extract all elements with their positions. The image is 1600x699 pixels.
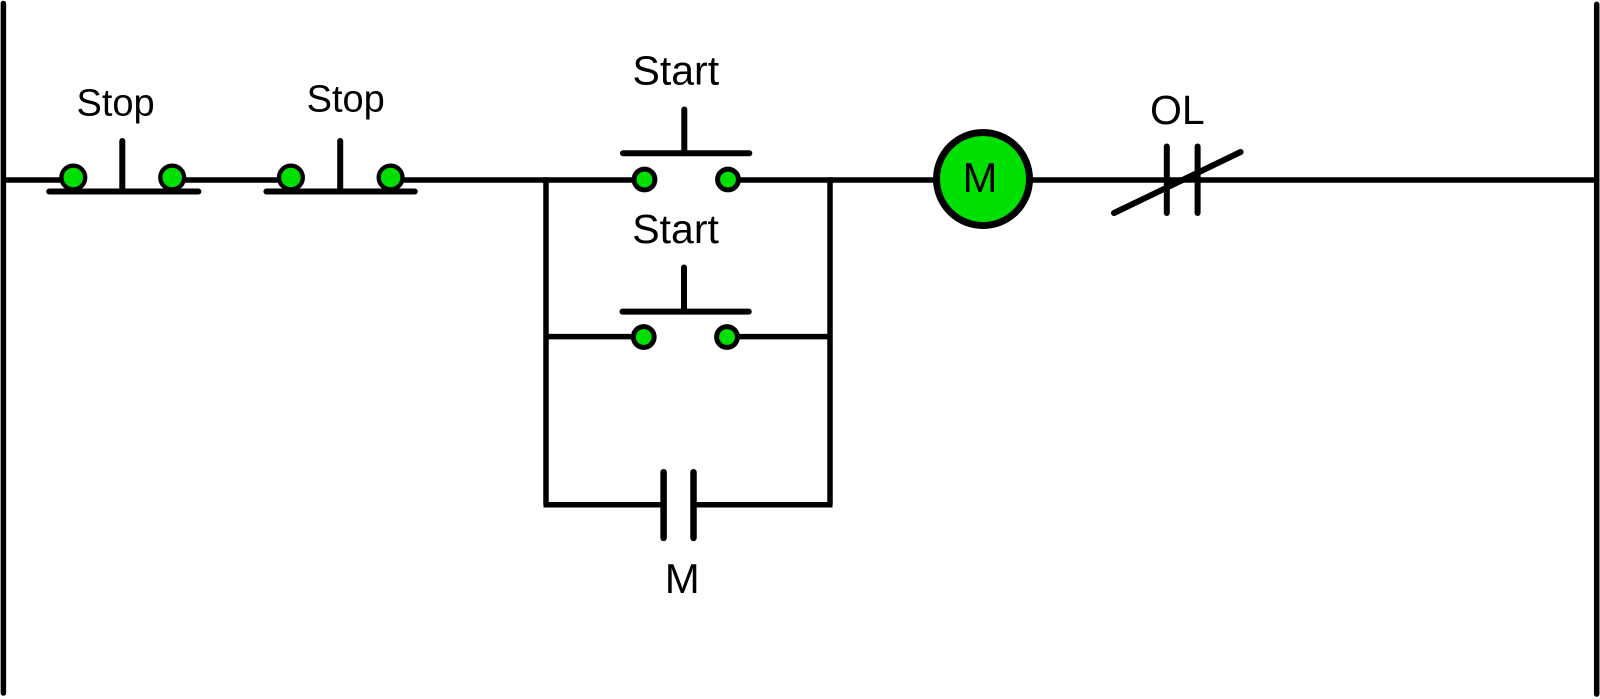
wire: Start2 branch left segment bbox=[544, 334, 645, 340]
pushbutton Stop1 contact bar bbox=[49, 189, 198, 195]
wire: Stop1 right terminal to Stop2 left terminal bbox=[172, 177, 291, 183]
pushbutton Start1 right terminal bbox=[718, 169, 739, 190]
wire: Start1 right terminal to right rail (through right branch node, motor M and OL) bbox=[728, 177, 1597, 183]
overload contact OL left plate bbox=[1164, 147, 1170, 214]
svg-text:Start: Start bbox=[632, 206, 719, 252]
svg-text:OL: OL bbox=[1150, 87, 1205, 133]
svg-text:Start: Start bbox=[633, 48, 720, 94]
svg-text:Stop: Stop bbox=[307, 78, 385, 120]
overload contact OL diagonal slash bbox=[1114, 152, 1241, 213]
pushbutton Stop1 left terminal bbox=[61, 166, 85, 190]
pushbutton Start1 left terminal bbox=[634, 169, 655, 190]
wire: Start2 branch right segment bbox=[727, 334, 833, 340]
pushbutton Stop2 right terminal bbox=[379, 166, 403, 190]
contact M right plate bbox=[690, 472, 697, 538]
svg-text:M: M bbox=[665, 555, 700, 602]
pushbutton Start2 contact bar bbox=[623, 309, 749, 315]
right power rail L2 bbox=[1594, 4, 1600, 694]
svg-text:Stop: Stop bbox=[77, 83, 155, 125]
pushbutton Stop1 right terminal bbox=[160, 166, 184, 190]
pushbutton Stop2 contact bar bbox=[266, 189, 414, 195]
wire: M contact branch right segment bbox=[694, 502, 833, 508]
pushbutton Start2 left terminal bbox=[633, 327, 654, 348]
left power rail L1 bbox=[1, 4, 7, 694]
pushbutton Stop1 actuator stem bbox=[119, 141, 125, 190]
pushbutton Stop2 left terminal bbox=[279, 166, 303, 190]
wire: rail to Stop1 left terminal bbox=[1, 177, 73, 183]
wire: Stop2 right terminal to Start1 left terminal (through left branch node) bbox=[391, 177, 645, 183]
pushbutton Stop2 actuator stem bbox=[337, 141, 343, 190]
coil M (motor starter) bbox=[937, 133, 1030, 226]
pushbutton Start2 actuator stem bbox=[681, 268, 687, 312]
svg-text:M: M bbox=[963, 154, 998, 201]
contact M left plate bbox=[660, 472, 667, 538]
overload contact OL right plate bbox=[1195, 147, 1201, 214]
wire: right parallel branch vertical bbox=[827, 177, 833, 504]
wire: M contact branch left segment bbox=[544, 502, 664, 508]
wire: left parallel branch vertical bbox=[543, 177, 549, 504]
pushbutton Start1 actuator stem bbox=[681, 110, 687, 154]
pushbutton Start1 contact bar bbox=[623, 150, 749, 156]
pushbutton Start2 right terminal bbox=[717, 327, 738, 348]
